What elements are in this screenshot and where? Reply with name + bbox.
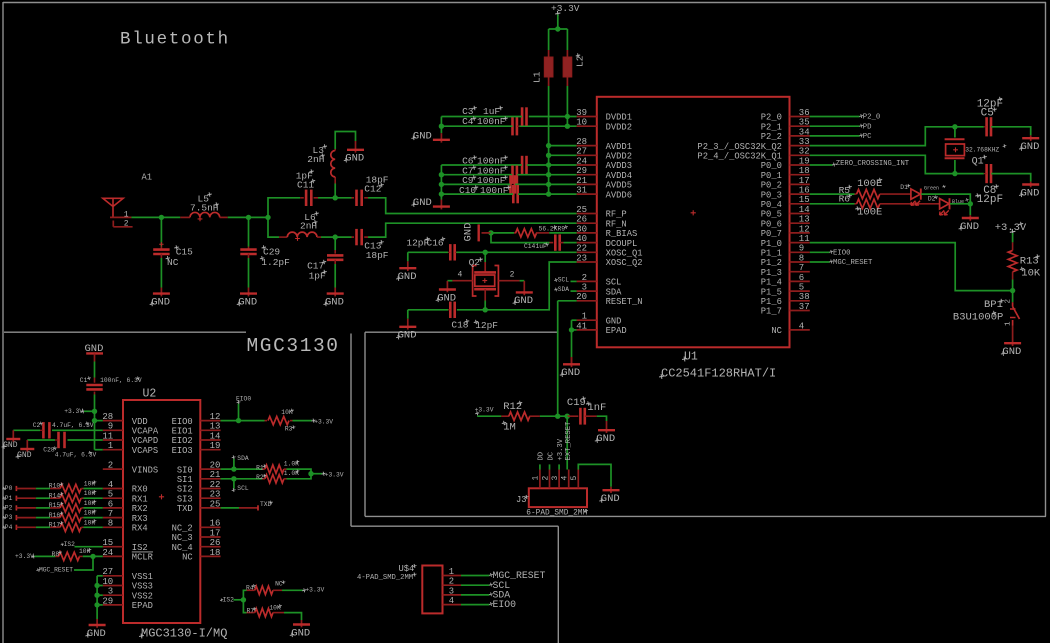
svg-text:C10: C10 [459, 185, 476, 196]
svg-text:P0_5: P0_5 [761, 210, 782, 220]
svg-text:GND: GND [413, 197, 432, 209]
svg-text:R15: R15 [49, 502, 61, 509]
svg-text:33: 33 [799, 137, 810, 147]
svg-text:P1_4: P1_4 [761, 278, 782, 288]
svg-text:22: 22 [576, 244, 587, 254]
svg-text:13: 13 [799, 215, 810, 225]
svg-text:TXD: TXD [260, 501, 272, 508]
svg-text:C15: C15 [176, 246, 193, 257]
svg-text:100nF: 100nF [480, 185, 509, 196]
svg-text:R1: R1 [256, 465, 264, 472]
svg-text:P0_6: P0_6 [761, 219, 782, 229]
svg-text:NC_4: NC_4 [172, 543, 193, 553]
svg-text:1uF: 1uF [536, 243, 548, 250]
svg-text:2: 2 [1005, 299, 1013, 304]
svg-text:P3: P3 [5, 514, 13, 521]
svg-text:11: 11 [102, 431, 113, 441]
svg-text:EPAD: EPAD [132, 601, 153, 611]
svg-text:+3.3V: +3.3V [305, 586, 324, 593]
svg-text:EIO0: EIO0 [493, 599, 517, 610]
svg-text:10K: 10K [84, 510, 96, 517]
svg-text:XOSC_Q1: XOSC_Q1 [606, 249, 643, 259]
svg-text:1: 1 [124, 210, 129, 219]
svg-text:10K: 10K [84, 500, 96, 507]
svg-text:AVDD6: AVDD6 [606, 190, 632, 200]
svg-text:R9: R9 [558, 225, 566, 232]
svg-text:VCAPD: VCAPD [132, 436, 158, 446]
svg-text:4-PAD_SMD_2MM: 4-PAD_SMD_2MM [357, 574, 413, 582]
svg-text:ZERO_CROSSING_INT: ZERO_CROSSING_INT [836, 160, 910, 168]
svg-text:IS2: IS2 [64, 541, 76, 548]
svg-text:+3.3V: +3.3V [314, 418, 333, 425]
svg-text:L1: L1 [532, 71, 543, 83]
svg-text:GND: GND [596, 433, 615, 445]
svg-text:7.5nH: 7.5nH [190, 203, 219, 214]
svg-text:MGC3130: MGC3130 [247, 335, 340, 357]
svg-text:11: 11 [799, 234, 810, 244]
svg-text:P1_0: P1_0 [761, 239, 782, 249]
svg-text:PC: PC [863, 133, 872, 141]
svg-text:26: 26 [576, 215, 587, 225]
svg-text:38: 38 [799, 292, 810, 302]
svg-text:GND: GND [87, 628, 106, 640]
svg-text:6: 6 [799, 273, 804, 283]
svg-text:P1: P1 [5, 495, 13, 502]
svg-text:18: 18 [799, 166, 810, 176]
svg-text:B3U1000P: B3U1000P [953, 312, 1003, 324]
svg-text:23: 23 [576, 253, 587, 263]
svg-text:DCOUPL: DCOUPL [606, 239, 638, 249]
svg-text:D1: D1 [900, 184, 908, 191]
svg-text:A1: A1 [142, 173, 153, 183]
svg-text:EIO0: EIO0 [833, 250, 851, 258]
svg-text:GND: GND [514, 295, 533, 307]
svg-text:XOSC_Q2: XOSC_Q2 [606, 258, 643, 268]
svg-text:14: 14 [799, 205, 810, 215]
svg-text:RX4: RX4 [132, 524, 148, 534]
svg-text:R14: R14 [49, 492, 61, 499]
svg-text:16: 16 [799, 186, 810, 196]
svg-text:PD: PD [863, 123, 872, 131]
svg-text:100nF, 6.3V: 100nF, 6.3V [100, 377, 142, 384]
svg-text:Q2: Q2 [469, 257, 481, 268]
svg-text:AVDD4: AVDD4 [606, 171, 632, 181]
svg-text:GND: GND [17, 451, 32, 460]
svg-text:10: 10 [576, 118, 587, 128]
svg-text:DC: DC [547, 451, 555, 460]
svg-text:P1_1: P1_1 [761, 249, 782, 259]
svg-text:SI2: SI2 [177, 485, 193, 495]
svg-text:VDD: VDD [132, 417, 148, 427]
svg-text:RX0: RX0 [132, 485, 148, 495]
svg-text:U$4: U$4 [399, 564, 415, 574]
svg-text:GND: GND [398, 330, 417, 342]
svg-text:3: 3 [449, 586, 454, 596]
svg-text:29: 29 [102, 596, 113, 606]
svg-text:R6: R6 [839, 194, 851, 205]
svg-text:VCAPS: VCAPS [132, 446, 158, 456]
svg-text:21: 21 [576, 176, 587, 186]
svg-text:NC_2: NC_2 [172, 524, 193, 534]
svg-text:P1_5: P1_5 [761, 287, 782, 297]
svg-text:RESET_N: RESET_N [606, 297, 643, 307]
svg-text:5: 5 [108, 490, 113, 500]
svg-text:GND: GND [345, 153, 364, 165]
svg-text:IS2: IS2 [223, 597, 235, 604]
svg-text:10K: 10K [84, 519, 96, 526]
svg-text:19: 19 [210, 441, 221, 451]
svg-text:DD: DD [538, 452, 546, 461]
svg-text:SCL: SCL [237, 485, 249, 492]
svg-text:GND: GND [238, 296, 257, 308]
svg-text:23: 23 [210, 490, 221, 500]
svg-text:VSS2: VSS2 [132, 591, 153, 601]
svg-text:GND: GND [398, 271, 417, 283]
svg-text:P1_2: P1_2 [761, 258, 782, 268]
svg-text:IS2: IS2 [132, 543, 148, 553]
svg-text:J3: J3 [516, 495, 527, 505]
svg-text:30: 30 [576, 224, 587, 234]
svg-text:GND: GND [437, 292, 456, 304]
svg-text:8: 8 [799, 253, 804, 263]
svg-text:15: 15 [102, 538, 113, 548]
svg-text:4: 4 [108, 480, 113, 490]
svg-text:RX1: RX1 [132, 494, 148, 504]
svg-text:EIO0: EIO0 [236, 396, 251, 403]
svg-text:4: 4 [449, 596, 454, 606]
svg-text:P2_4_/_OSC32K_Q1: P2_4_/_OSC32K_Q1 [697, 152, 781, 162]
svg-text:8: 8 [108, 519, 113, 529]
svg-text:7: 7 [799, 263, 804, 273]
svg-text:9: 9 [799, 244, 804, 254]
svg-text:1: 1 [108, 441, 113, 451]
svg-text:CC2541F128RHAT/I: CC2541F128RHAT/I [661, 367, 776, 381]
svg-text:4: 4 [458, 271, 463, 280]
svg-text:GND: GND [561, 367, 580, 379]
svg-text:SDA: SDA [237, 455, 249, 462]
svg-text:Bluetooth: Bluetooth [120, 30, 230, 50]
svg-text:20: 20 [576, 292, 587, 302]
svg-text:Q1: Q1 [972, 156, 984, 167]
svg-text:SDA: SDA [606, 287, 623, 297]
svg-text:EIO1: EIO1 [172, 427, 193, 437]
svg-text:AVDD3: AVDD3 [606, 161, 632, 171]
svg-text:2: 2 [108, 461, 113, 471]
svg-text:GND: GND [291, 627, 310, 639]
svg-text:37: 37 [799, 302, 810, 312]
svg-text:1.2pF: 1.2pF [261, 257, 290, 268]
svg-text:40: 40 [576, 234, 587, 244]
svg-text:MCLR: MCLR [132, 553, 154, 563]
svg-text:GND: GND [463, 223, 475, 242]
svg-text:VSS3: VSS3 [132, 582, 153, 592]
svg-text:18pF: 18pF [366, 250, 389, 261]
svg-text:22: 22 [210, 480, 221, 490]
svg-text:P0_7: P0_7 [761, 229, 782, 239]
svg-text:1nF: 1nF [587, 402, 606, 414]
svg-text:31: 31 [576, 186, 587, 196]
svg-text:SI3: SI3 [177, 494, 193, 504]
svg-text:Green: Green [924, 186, 939, 192]
svg-text:GND: GND [3, 441, 18, 450]
svg-text:EPAD: EPAD [606, 326, 627, 336]
svg-text:P2_0: P2_0 [863, 114, 881, 122]
svg-text:39: 39 [576, 108, 587, 118]
svg-text:SI1: SI1 [177, 475, 193, 485]
svg-text:GND: GND [1021, 141, 1040, 153]
svg-text:41: 41 [576, 321, 587, 331]
svg-text:29: 29 [576, 166, 587, 176]
svg-text:R16: R16 [49, 512, 61, 519]
svg-text:RF_N: RF_N [606, 219, 627, 229]
svg-text:12: 12 [799, 224, 810, 234]
svg-text:14: 14 [210, 431, 221, 441]
svg-text:C28: C28 [43, 447, 55, 454]
svg-text:R8: R8 [52, 551, 60, 558]
svg-text:RX2: RX2 [132, 504, 148, 514]
svg-text:6-PAD_SMD_2MM: 6-PAD_SMD_2MM [526, 510, 587, 518]
svg-text:EIO3: EIO3 [172, 446, 193, 456]
svg-text:NC_3: NC_3 [172, 533, 193, 543]
svg-text:P0_4: P0_4 [761, 200, 782, 210]
svg-text:P2_3_/_OSC32K_Q2: P2_3_/_OSC32K_Q2 [697, 142, 781, 152]
svg-text:R10: R10 [49, 483, 61, 490]
svg-text:EXT_RESET: EXT_RESET [565, 421, 573, 461]
svg-text:18: 18 [210, 548, 221, 558]
svg-text:P4: P4 [5, 524, 13, 531]
svg-text:12: 12 [210, 412, 221, 422]
svg-text:GND: GND [1021, 187, 1040, 199]
svg-text:P2_2: P2_2 [761, 132, 782, 142]
svg-text:1: 1 [449, 567, 454, 577]
svg-text:C1: C1 [80, 377, 88, 384]
svg-text:2: 2 [510, 271, 515, 280]
svg-text:EIO0: EIO0 [172, 417, 193, 427]
svg-text:SDA: SDA [558, 286, 570, 293]
svg-text:C29: C29 [263, 246, 280, 257]
svg-text:L2: L2 [575, 55, 586, 67]
svg-text:P0: P0 [5, 485, 13, 492]
svg-text:10K: 10K [1021, 268, 1041, 280]
svg-text:U2: U2 [143, 388, 157, 401]
svg-text:AVDD2: AVDD2 [606, 152, 632, 162]
svg-text:10K: 10K [281, 409, 293, 416]
svg-text:R_BIAS: R_BIAS [606, 229, 638, 239]
svg-text:MGC_RESET: MGC_RESET [39, 567, 73, 574]
svg-text:BP1: BP1 [984, 299, 1003, 311]
svg-text:AVDD1: AVDD1 [606, 142, 632, 152]
svg-text:17: 17 [210, 528, 221, 538]
svg-text:+3.3V: +3.3V [15, 553, 34, 560]
svg-text:R3: R3 [285, 426, 293, 433]
svg-text:36: 36 [799, 108, 810, 118]
svg-text:C5: C5 [981, 108, 994, 120]
svg-text:P0_0: P0_0 [761, 161, 782, 171]
svg-text:24: 24 [576, 156, 587, 166]
svg-text:100E: 100E [857, 178, 882, 190]
svg-text:26: 26 [210, 538, 221, 548]
svg-text:P1_3: P1_3 [761, 268, 782, 278]
svg-text:1.0K: 1.0K [284, 460, 299, 467]
svg-text:3: 3 [551, 476, 560, 481]
svg-text:EIO2: EIO2 [172, 436, 193, 446]
svg-text:D2: D2 [928, 196, 936, 203]
svg-text:C14: C14 [524, 243, 536, 250]
svg-text:P1_6: P1_6 [761, 297, 782, 307]
svg-text:GND: GND [151, 296, 170, 308]
svg-text:27: 27 [576, 147, 587, 157]
svg-text:21: 21 [210, 470, 221, 480]
svg-text:+3.3V: +3.3V [325, 471, 344, 478]
svg-text:VSS1: VSS1 [132, 572, 153, 582]
svg-text:NC: NC [167, 257, 179, 268]
svg-text:DVDD2: DVDD2 [606, 122, 632, 132]
svg-text:GND: GND [606, 316, 622, 326]
svg-text:GND: GND [325, 296, 344, 308]
svg-text:3: 3 [108, 587, 113, 597]
svg-text:+3.3V: +3.3V [64, 408, 83, 415]
svg-text:U1: U1 [684, 350, 698, 363]
svg-text:19: 19 [799, 156, 810, 166]
svg-text:20: 20 [210, 461, 221, 471]
svg-text:R2: R2 [256, 474, 264, 481]
svg-text:2: 2 [582, 273, 587, 283]
svg-text:32.768KHZ: 32.768KHZ [965, 147, 999, 154]
svg-text:1: 1 [582, 312, 587, 322]
svg-text:10K: 10K [79, 548, 91, 555]
svg-text:GND: GND [960, 221, 979, 233]
svg-text:+3.3V: +3.3V [557, 438, 565, 460]
svg-text:15: 15 [799, 195, 810, 205]
svg-text:+3.3V: +3.3V [551, 3, 580, 14]
svg-text:GND: GND [1002, 346, 1021, 358]
svg-text:P0_2: P0_2 [761, 181, 782, 191]
svg-text:P0_3: P0_3 [761, 190, 782, 200]
svg-text:10K: 10K [84, 490, 96, 497]
svg-text:C12: C12 [364, 183, 381, 194]
svg-text:25: 25 [576, 205, 587, 215]
svg-text:P1_7: P1_7 [761, 307, 782, 317]
svg-text:1: 1 [532, 476, 541, 481]
svg-text:DVDD1: DVDD1 [606, 113, 632, 123]
svg-text:34: 34 [799, 127, 810, 137]
svg-text:SI0: SI0 [177, 465, 193, 475]
svg-text:6: 6 [108, 499, 113, 509]
svg-text:25: 25 [210, 499, 221, 509]
svg-text:3: 3 [582, 283, 587, 293]
svg-text:R4: R4 [246, 585, 254, 592]
svg-text:5: 5 [570, 476, 579, 481]
svg-text:10K: 10K [269, 605, 281, 612]
svg-text:NC: NC [771, 326, 782, 336]
svg-text:28: 28 [576, 137, 587, 147]
svg-text:P2_1: P2_1 [761, 122, 782, 132]
svg-text:13: 13 [210, 422, 221, 432]
svg-text:32: 32 [799, 147, 810, 157]
svg-text:AVDD5: AVDD5 [606, 181, 632, 191]
svg-text:1.0K: 1.0K [284, 470, 299, 477]
svg-text:MGC_RESET: MGC_RESET [833, 259, 873, 267]
svg-text:10K: 10K [84, 481, 96, 488]
svg-text:12pF: 12pF [475, 320, 498, 331]
svg-text:9: 9 [108, 422, 113, 432]
svg-text:RX3: RX3 [132, 514, 148, 524]
svg-text:GND: GND [601, 493, 620, 505]
svg-text:SCL: SCL [558, 277, 570, 284]
svg-text:P2: P2 [5, 505, 13, 512]
svg-text:4: 4 [799, 321, 804, 331]
svg-text:SCL: SCL [606, 278, 622, 288]
svg-text:VINDS: VINDS [132, 465, 158, 475]
svg-text:2: 2 [449, 577, 454, 587]
svg-text:12pF: 12pF [977, 194, 1003, 206]
svg-text:27: 27 [102, 567, 113, 577]
svg-text:NC: NC [275, 581, 283, 588]
svg-text:NC: NC [182, 553, 193, 563]
svg-text:7: 7 [108, 509, 113, 519]
svg-text:100nF: 100nF [477, 116, 506, 127]
svg-text:17: 17 [799, 176, 810, 186]
svg-text:28: 28 [102, 412, 113, 422]
svg-text:2: 2 [541, 476, 550, 481]
svg-text:P0_1: P0_1 [761, 171, 782, 181]
svg-text:1: 1 [1005, 321, 1013, 326]
svg-text:100E: 100E [857, 207, 882, 219]
svg-text:4: 4 [561, 476, 570, 481]
svg-text:GND: GND [413, 130, 432, 142]
svg-text:10: 10 [102, 577, 113, 587]
svg-text:MGC3130-I/MQ: MGC3130-I/MQ [141, 627, 227, 641]
svg-text:P2_0: P2_0 [761, 113, 782, 123]
svg-text:VCAPA: VCAPA [132, 427, 159, 437]
svg-text:35: 35 [799, 118, 810, 128]
svg-text:R17: R17 [49, 522, 61, 529]
svg-text:C2: C2 [33, 422, 41, 429]
svg-text:R7: R7 [247, 608, 255, 615]
svg-text:2: 2 [124, 220, 129, 229]
svg-text:RF_P: RF_P [606, 210, 627, 220]
svg-text:5: 5 [799, 283, 804, 293]
svg-text:TXD: TXD [177, 504, 193, 514]
svg-text:24: 24 [102, 548, 113, 558]
svg-text:C4: C4 [462, 116, 474, 127]
svg-text:16: 16 [210, 519, 221, 529]
